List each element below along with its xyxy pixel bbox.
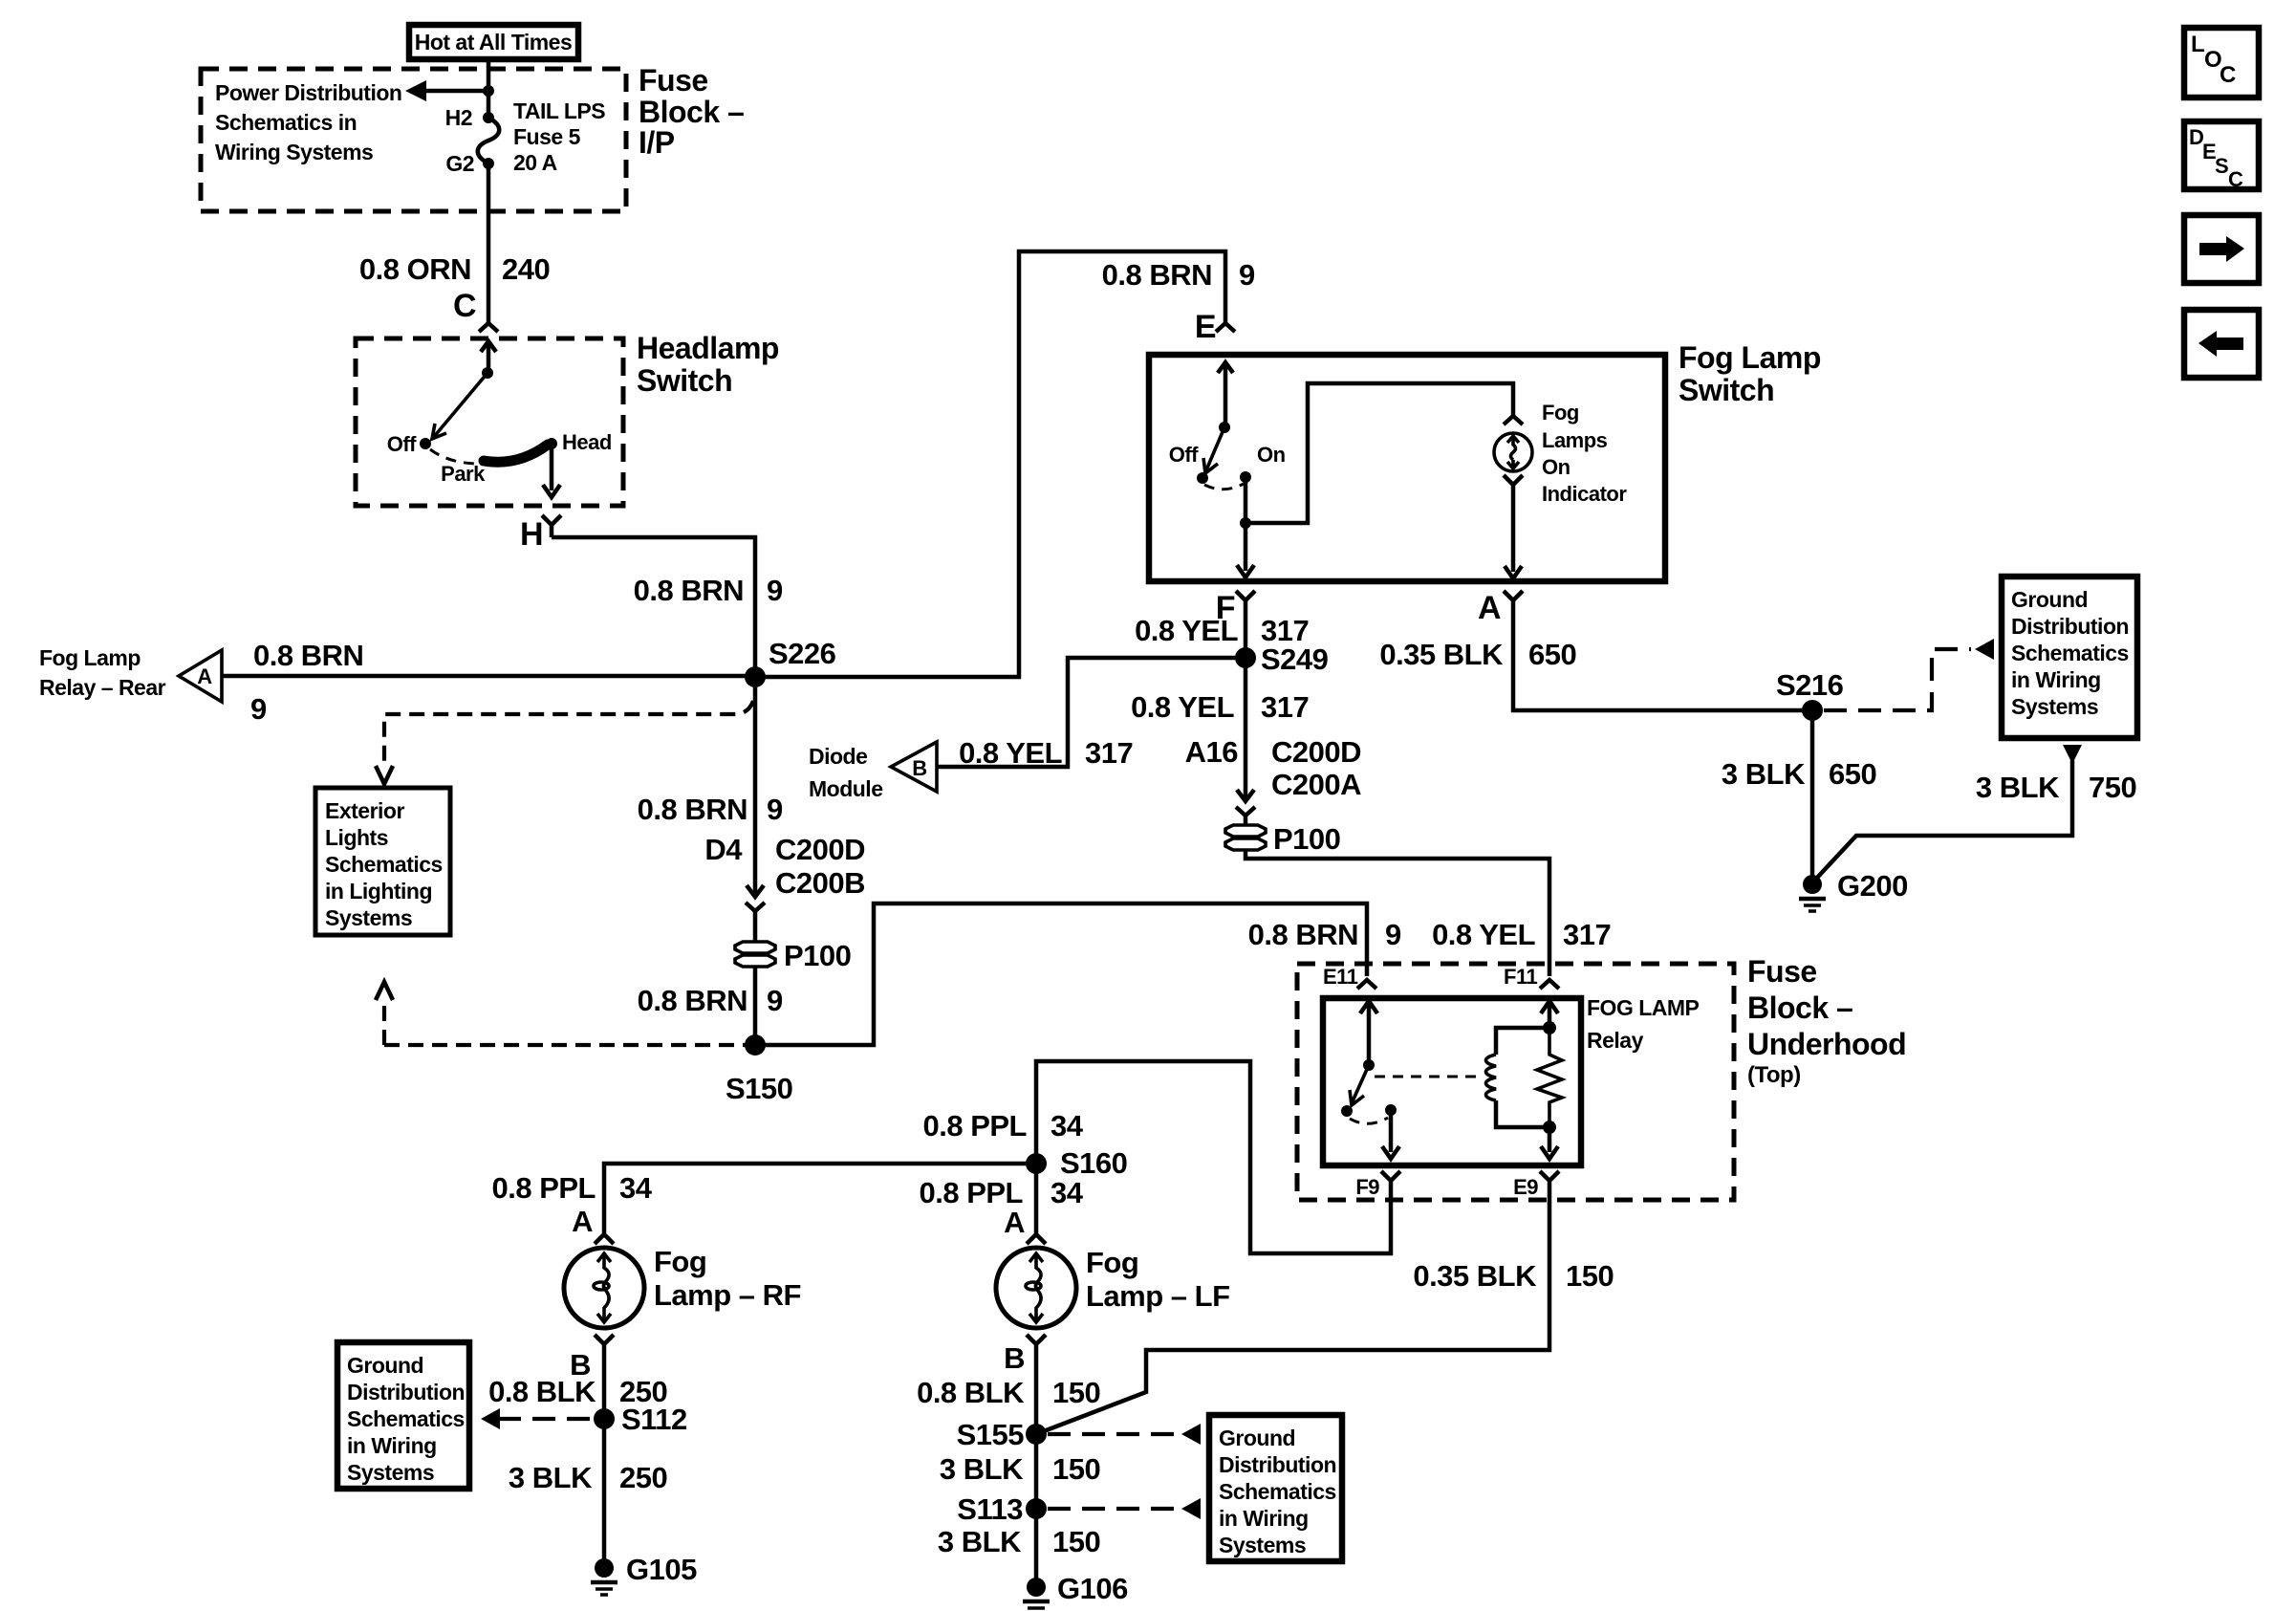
svg-text:9: 9 — [1385, 918, 1401, 951]
lamp Fog Lamp - LF — [996, 1248, 1076, 1328]
svg-text:9: 9 — [1239, 258, 1255, 292]
wire ground box to G200 — [1817, 760, 2072, 878]
relay resistor — [1537, 1028, 1562, 1127]
connector F — [1236, 591, 1255, 615]
connector E9 — [1540, 1171, 1559, 1195]
svg-text:Off: Off — [1169, 443, 1199, 467]
dashed ref S112 to ground box — [498, 1417, 593, 1421]
wire B to S112 — [602, 1354, 607, 1419]
contact relay NC side — [1385, 1104, 1397, 1116]
svg-text:Park: Park — [441, 462, 486, 486]
svg-text:S216: S216 — [1776, 668, 1844, 702]
svg-text:Block –: Block – — [1747, 991, 1852, 1025]
svg-text:Lamp – LF: Lamp – LF — [1086, 1279, 1230, 1313]
svg-text:F9: F9 — [1355, 1175, 1379, 1199]
wire S226 to fog lamp switch E — [755, 251, 1225, 677]
wire H to S226 — [552, 537, 755, 677]
connector ref triangle B (Diode Module) — [891, 742, 937, 792]
relay box — [1323, 998, 1581, 1165]
box LOC — [2184, 28, 2259, 98]
wire P100 to relay F11 — [1245, 850, 1549, 976]
box Ground Distribution Schematics in Wiring Systems (middle) — [1209, 1415, 1342, 1561]
svg-text:0.8 PPL: 0.8 PPL — [920, 1176, 1024, 1209]
svg-text:Diode: Diode — [809, 744, 867, 769]
wire A to S216 — [1513, 615, 1812, 710]
svg-text:0.8 PPL: 0.8 PPL — [923, 1109, 1028, 1143]
wire to power distribution (arrow left) — [424, 89, 488, 94]
svg-text:0.8 BRN: 0.8 BRN — [634, 574, 744, 607]
svg-text:On: On — [1542, 455, 1570, 479]
box DESC — [2184, 121, 2259, 189]
ground G106 — [1027, 1578, 1046, 1597]
svg-text:TAIL LPS: TAIL LPS — [513, 98, 605, 123]
contact Off — [1197, 472, 1208, 484]
svg-text:Ground: Ground — [2011, 587, 2088, 612]
svg-text:9: 9 — [767, 984, 783, 1017]
wire S249 down to C200A — [1244, 658, 1248, 797]
connector B (lamp RF) — [595, 1335, 614, 1354]
svg-text:Fog: Fog — [1542, 401, 1579, 425]
splice S249 — [1235, 647, 1256, 668]
svg-text:34: 34 — [1051, 1109, 1084, 1143]
wire indicator to A exit with arrow — [1511, 489, 1516, 572]
svg-text:Fog: Fog — [1086, 1246, 1138, 1279]
svg-text:Distribution: Distribution — [1219, 1452, 1336, 1477]
splice S216 — [1802, 700, 1823, 721]
wire to fog lamp relay rear — [222, 674, 755, 679]
svg-text:0.8 BRN: 0.8 BRN — [638, 793, 747, 826]
svg-text:Schematics in: Schematics in — [215, 110, 357, 135]
box Ground Distribution Schematics in Wiring Systems (right) — [2002, 577, 2137, 738]
svg-text:Fog Lamp: Fog Lamp — [39, 645, 141, 670]
pass-through grommet P100 (right) — [1225, 825, 1266, 837]
svg-text:3 BLK: 3 BLK — [940, 1452, 1024, 1486]
svg-text:C200D: C200D — [1271, 735, 1361, 769]
svg-text:E: E — [1195, 309, 1216, 345]
svg-text:Lights: Lights — [325, 825, 388, 850]
relay coil winding — [1496, 1028, 1549, 1055]
svg-text:0.35 BLK: 0.35 BLK — [1379, 638, 1504, 671]
svg-text:L: L — [2191, 32, 2204, 57]
svg-text:P100: P100 — [784, 939, 851, 972]
relay wiper arm — [1352, 1065, 1369, 1103]
svg-text:Switch: Switch — [637, 363, 732, 398]
svg-text:317: 317 — [1085, 736, 1133, 770]
wire P100 to S150 — [753, 967, 758, 1045]
wire fuse to connector C — [487, 163, 491, 322]
svg-text:0.8 BRN: 0.8 BRN — [1248, 918, 1358, 951]
svg-text:Systems: Systems — [2011, 694, 2098, 719]
svg-text:20 A: 20 A — [513, 150, 557, 175]
svg-text:in Wiring: in Wiring — [2011, 667, 2101, 692]
connector H — [542, 515, 561, 537]
wire entry arrow — [1218, 362, 1233, 427]
wire F9 to S160 — [1036, 1061, 1391, 1253]
dashed ref wire S150 to exterior lights box — [382, 1000, 386, 1045]
svg-text:0.8 BLK: 0.8 BLK — [488, 1375, 596, 1408]
svg-text:Wiring Systems: Wiring Systems — [215, 140, 373, 164]
indicator lamp circle (Fog Lamps On Indicator) — [1494, 433, 1532, 471]
wire S155 to S113 — [1034, 1434, 1039, 1509]
svg-text:0.8 BLK: 0.8 BLK — [917, 1376, 1025, 1409]
svg-text:Ground: Ground — [1219, 1426, 1295, 1450]
svg-text:Headlamp: Headlamp — [637, 331, 779, 365]
wire F to S249 — [1244, 615, 1248, 658]
splice S150 — [745, 1034, 766, 1056]
svg-text:Relay – Rear: Relay – Rear — [39, 675, 166, 700]
connector ref triangle A (Fog Lamp Relay - Rear) — [179, 650, 222, 702]
switch wiper arm to Off — [433, 373, 487, 438]
svg-text:D4: D4 — [704, 833, 743, 866]
box arrow right — [2184, 215, 2259, 283]
svg-text:S150: S150 — [726, 1072, 792, 1105]
svg-text:Module: Module — [809, 776, 883, 801]
svg-text:34: 34 — [1051, 1176, 1084, 1209]
svg-text:S249: S249 — [1261, 642, 1329, 676]
svg-text:S226: S226 — [769, 637, 836, 670]
svg-text:0.35 BLK: 0.35 BLK — [1413, 1259, 1537, 1293]
svg-text:0.8 YEL: 0.8 YEL — [1135, 614, 1238, 647]
svg-text:Hot at All Times: Hot at All Times — [415, 30, 573, 54]
svg-text:0.8 BRN: 0.8 BRN — [1102, 258, 1212, 292]
dashed link arm to coil — [1375, 1076, 1484, 1078]
fog lamp switch box — [1149, 355, 1665, 581]
svg-text:E11: E11 — [1323, 965, 1358, 989]
svg-text:9: 9 — [250, 692, 267, 726]
svg-text:Fog: Fog — [654, 1245, 706, 1278]
svg-text:Power Distribution: Power Distribution — [215, 80, 401, 105]
svg-text:0.8 ORN: 0.8 ORN — [359, 252, 471, 286]
svg-text:I/P: I/P — [639, 125, 675, 160]
svg-text:Lamps: Lamps — [1542, 428, 1608, 452]
svg-text:Systems: Systems — [347, 1460, 434, 1485]
svg-text:3 BLK: 3 BLK — [1722, 757, 1806, 791]
svg-text:in Lighting: in Lighting — [325, 879, 432, 903]
node switch pivot — [482, 367, 493, 379]
svg-text:34: 34 — [619, 1171, 653, 1205]
fuse block underhood dashed box — [1297, 964, 1734, 1200]
dashed arc relay contacts — [1350, 1118, 1388, 1123]
svg-text:H2: H2 — [445, 105, 472, 130]
svg-text:Fuse 5: Fuse 5 — [513, 124, 581, 149]
connector A (fog lamp switch) — [1504, 591, 1523, 615]
wire S113 to G106 — [1034, 1509, 1039, 1582]
switch wiper arm — [1205, 427, 1224, 472]
wire S226 down to C200B — [753, 677, 758, 893]
svg-text:(Top): (Top) — [1747, 1062, 1801, 1088]
svg-text:F11: F11 — [1504, 965, 1537, 989]
dashed ref S113 to ground box — [1048, 1507, 1180, 1511]
connector chevron below indicator — [1504, 475, 1523, 489]
svg-text:S155: S155 — [957, 1418, 1025, 1451]
svg-text:Switch: Switch — [1679, 373, 1774, 407]
node coil top — [1543, 1021, 1556, 1034]
splice S112 — [594, 1408, 615, 1429]
svg-text:Distribution: Distribution — [2011, 614, 2129, 639]
wire On to junction — [1244, 477, 1248, 523]
svg-text:G2: G2 — [445, 151, 474, 176]
node fog switch pivot — [1219, 422, 1230, 433]
wire S160 to lamp RF — [604, 1164, 1036, 1233]
box Exterior Lights Schematics in Lighting Systems — [315, 788, 450, 935]
relay switch entry arrow (E11) — [1360, 1001, 1377, 1065]
svg-text:Schematics: Schematics — [1219, 1479, 1336, 1504]
wire S160 down to lamp LF — [1034, 1164, 1039, 1233]
svg-text:Lamp – RF: Lamp – RF — [654, 1278, 801, 1312]
wire hot feed down — [487, 59, 491, 118]
svg-text:C: C — [2220, 62, 2236, 88]
svg-text:Indicator: Indicator — [1542, 482, 1627, 506]
splice S155 — [1026, 1424, 1047, 1445]
dashed arc Off to On — [1204, 484, 1244, 490]
node coil bottom — [1543, 1121, 1556, 1134]
svg-text:150: 150 — [1566, 1259, 1614, 1293]
svg-text:317: 317 — [1261, 690, 1309, 724]
svg-text:P100: P100 — [1273, 822, 1340, 856]
svg-text:0.8 BRN: 0.8 BRN — [638, 984, 747, 1017]
svg-text:A: A — [1478, 590, 1501, 626]
thick arc Park to Head — [484, 445, 548, 462]
svg-text:S: S — [2215, 154, 2228, 178]
splice S226 — [745, 666, 766, 687]
svg-text:650: 650 — [1528, 638, 1576, 671]
svg-text:A: A — [572, 1205, 593, 1238]
contact Off — [420, 438, 431, 449]
svg-text:C: C — [453, 288, 476, 324]
svg-text:in Wiring: in Wiring — [1219, 1506, 1309, 1531]
fuse TAIL LPS Fuse 5 20A (element S-curve, pins H2/G2) — [483, 112, 494, 123]
splice S113 — [1026, 1498, 1047, 1519]
wire diode module ref — [937, 658, 1245, 767]
svg-text:650: 650 — [1829, 757, 1876, 791]
svg-text:0.8 YEL: 0.8 YEL — [1131, 690, 1234, 724]
svg-text:Distribution: Distribution — [347, 1380, 465, 1404]
node junction — [483, 85, 494, 97]
wire S216 to G200 — [1810, 710, 1815, 880]
dashed ref S216 to ground box — [1824, 649, 1971, 710]
svg-text:A16: A16 — [1185, 735, 1239, 769]
svg-text:G106: G106 — [1057, 1572, 1128, 1605]
svg-text:Fog Lamp: Fog Lamp — [1679, 340, 1821, 375]
svg-text:150: 150 — [1052, 1376, 1100, 1409]
wire B to S155 — [1034, 1354, 1039, 1434]
box Ground Distribution Schematics in Wiring Systems (left) — [337, 1342, 469, 1489]
svg-text:0.8 BRN: 0.8 BRN — [253, 639, 363, 672]
box Hot at All Times — [409, 25, 578, 59]
svg-text:9: 9 — [767, 793, 783, 826]
svg-text:Schematics: Schematics — [325, 852, 443, 877]
svg-text:3 BLK: 3 BLK — [509, 1461, 593, 1494]
svg-text:Off: Off — [387, 432, 417, 456]
svg-text:750: 750 — [2089, 771, 2136, 804]
svg-text:250: 250 — [619, 1461, 667, 1494]
svg-text:C200B: C200B — [775, 866, 865, 900]
contact Head — [546, 438, 557, 449]
svg-text:317: 317 — [1563, 918, 1611, 951]
node relay pivot — [1363, 1059, 1375, 1071]
svg-text:0.8 PPL: 0.8 PPL — [492, 1171, 596, 1205]
connector F9 — [1381, 1171, 1400, 1195]
svg-text:Systems: Systems — [325, 905, 412, 930]
ground G105 — [595, 1558, 614, 1578]
inline connector C200 (right) — [1237, 790, 1254, 801]
svg-text:C200D: C200D — [775, 833, 865, 866]
ground G200 — [1803, 875, 1822, 894]
svg-text:Fuse: Fuse — [1747, 954, 1817, 989]
lamp Fog Lamp - RF — [564, 1248, 644, 1328]
svg-text:Systems: Systems — [1219, 1533, 1306, 1557]
contact relay NO — [1341, 1105, 1353, 1117]
wire junction to F exit with arrow — [1244, 523, 1248, 571]
svg-text:3 BLK: 3 BLK — [1976, 771, 2060, 804]
svg-text:B: B — [1004, 1341, 1025, 1375]
dashed ref wire S226 to exterior lights box — [384, 701, 753, 766]
svg-text:A: A — [1004, 1206, 1025, 1239]
contact On — [1240, 471, 1251, 483]
svg-text:E9: E9 — [1513, 1175, 1538, 1199]
wire E9 to S155 — [1036, 1195, 1549, 1434]
wire coil to E9 with arrow — [1548, 1127, 1552, 1152]
svg-text:S160: S160 — [1060, 1146, 1127, 1180]
svg-text:150: 150 — [1052, 1525, 1100, 1558]
connector B (lamp LF) — [1027, 1335, 1046, 1354]
svg-text:Ground: Ground — [347, 1353, 423, 1378]
svg-text:Relay: Relay — [1587, 1028, 1644, 1053]
connector chevron above indicator — [1504, 416, 1523, 425]
relay F11 entry arrow — [1541, 1001, 1558, 1028]
svg-text:Underhood: Underhood — [1747, 1027, 1906, 1061]
svg-text:in Wiring: in Wiring — [347, 1433, 437, 1458]
svg-text:S113: S113 — [957, 1492, 1023, 1526]
svg-text:Block –: Block – — [639, 95, 744, 129]
wire relay output to F9 with arrow — [1389, 1110, 1394, 1152]
svg-text:A: A — [197, 664, 212, 688]
svg-text:G200: G200 — [1837, 869, 1908, 903]
headlamp switch dashed box — [356, 338, 623, 506]
wire Head output with arrow — [550, 444, 554, 490]
svg-text:S112: S112 — [621, 1403, 687, 1436]
svg-text:0.8 YEL: 0.8 YEL — [959, 736, 1062, 770]
svg-text:H: H — [520, 516, 543, 553]
fuse block I/P dashed box — [201, 69, 626, 211]
svg-text:On: On — [1257, 443, 1286, 467]
splice S160 — [1026, 1153, 1047, 1174]
inline connector C200 (left) — [747, 885, 764, 897]
svg-text:Schematics: Schematics — [347, 1406, 465, 1431]
svg-text:Schematics: Schematics — [2011, 641, 2129, 665]
wire S112 to G105 — [602, 1419, 607, 1563]
svg-text:240: 240 — [502, 252, 550, 286]
dashed ref S155 to ground box — [1048, 1432, 1180, 1436]
svg-text:C200A: C200A — [1271, 768, 1361, 801]
svg-text:0.8 YEL: 0.8 YEL — [1432, 918, 1535, 951]
svg-text:Fuse: Fuse — [639, 63, 708, 98]
svg-text:Exterior: Exterior — [325, 798, 404, 823]
box arrow left — [2184, 310, 2259, 378]
ref triangle below ground box — [2063, 745, 2082, 764]
svg-text:C: C — [2228, 167, 2243, 191]
wire S150 to relay E11 — [755, 903, 1367, 1045]
dashed arc Off to Park — [430, 449, 480, 464]
pass-through grommet P100 (left) — [735, 942, 775, 953]
svg-text:150: 150 — [1052, 1452, 1100, 1486]
svg-text:3 BLK: 3 BLK — [938, 1525, 1022, 1558]
svg-text:G105: G105 — [626, 1553, 697, 1586]
svg-text:B: B — [912, 756, 926, 780]
wire entry arrow into switch — [481, 341, 496, 373]
svg-text:Head: Head — [562, 430, 612, 454]
svg-text:9: 9 — [767, 574, 783, 607]
node junction — [1240, 517, 1251, 529]
svg-text:FOG LAMP: FOG LAMP — [1587, 995, 1700, 1020]
wire junction to indicator — [1245, 383, 1513, 523]
